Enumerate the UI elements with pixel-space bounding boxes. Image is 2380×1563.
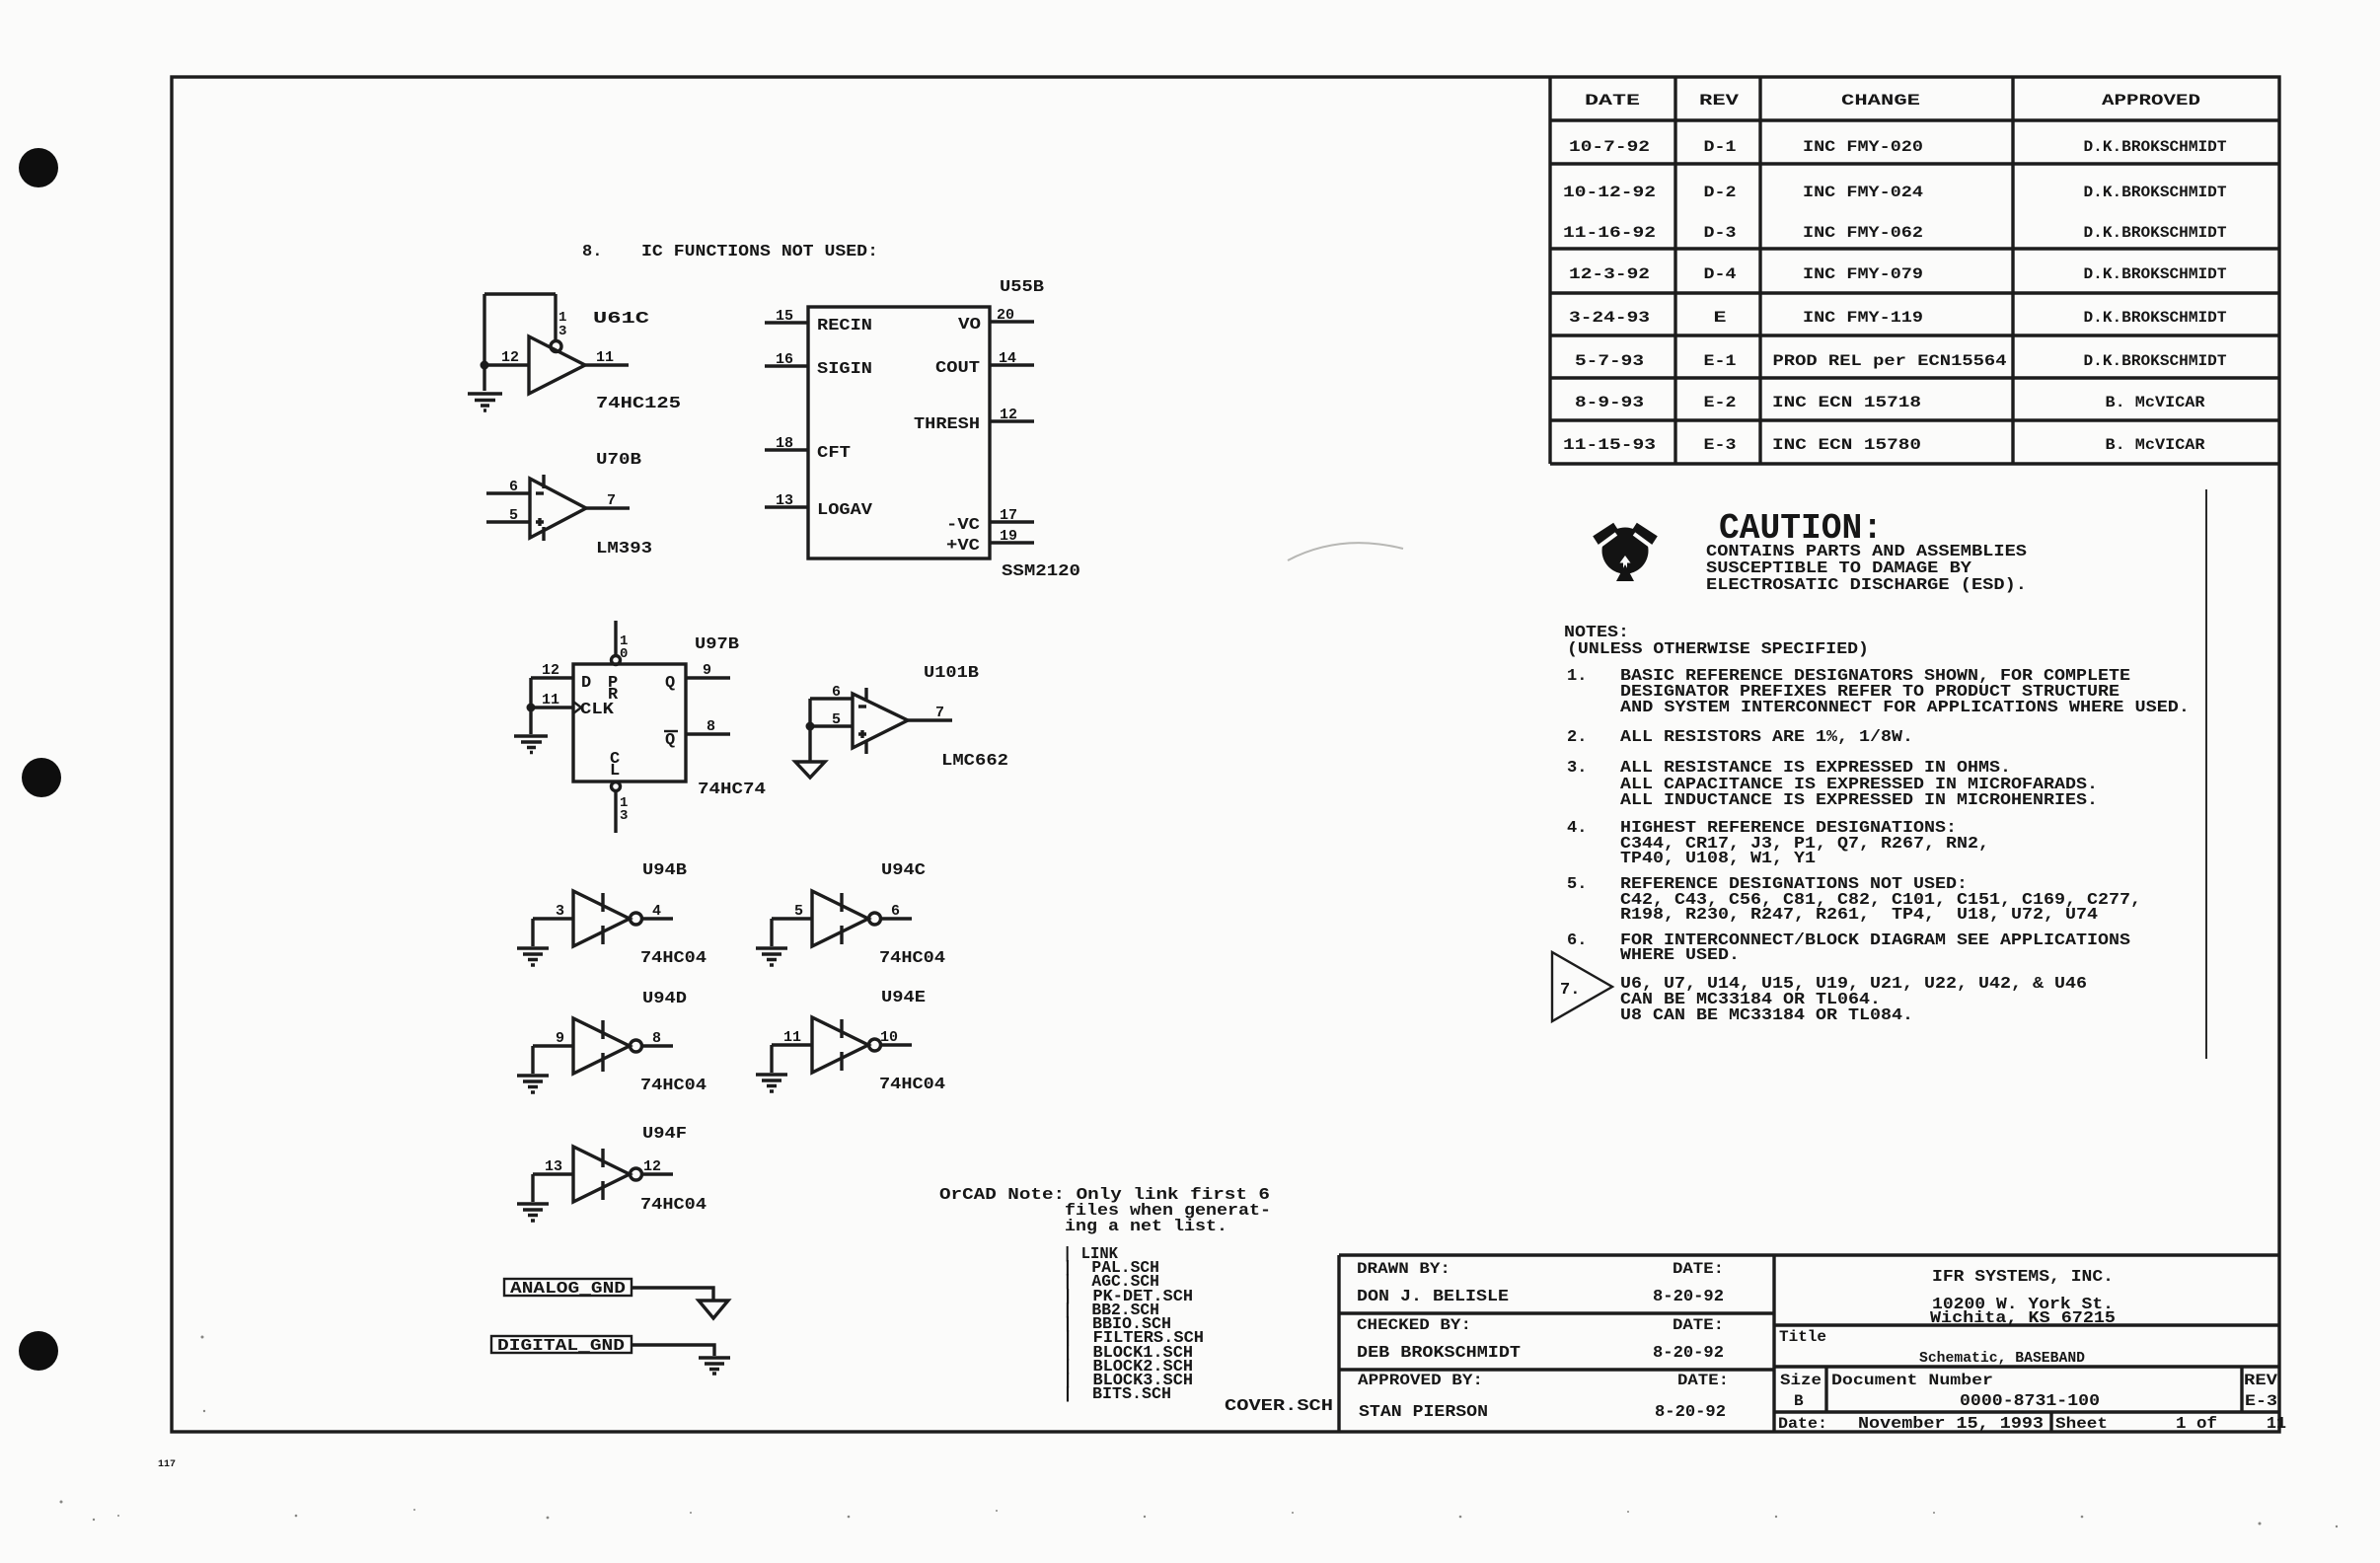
svg-text:D.K.BROKSCHMIDT: D.K.BROKSCHMIDT — [2084, 265, 2227, 283]
svg-text:INC ECN 15780: INC ECN 15780 — [1772, 436, 1921, 454]
ground drop wire — [531, 1046, 534, 1074]
svg-text:8-20-92: 8-20-92 — [1655, 1403, 1726, 1422]
svg-text:9: 9 — [556, 1030, 564, 1047]
svg-text:1.: 1. — [1567, 667, 1587, 686]
svg-text:D-3: D-3 — [1704, 224, 1737, 242]
svg-text:Title: Title — [1779, 1328, 1826, 1346]
wire pin 19 — [990, 541, 1034, 544]
svg-text:D.K.BROKSCHMIDT: D.K.BROKSCHMIDT — [2084, 352, 2227, 370]
buffer triangle U61C — [529, 336, 585, 394]
bubble — [631, 913, 642, 925]
wire pin 11 — [531, 706, 573, 708]
svg-text:D: D — [581, 674, 591, 693]
svg-text:B. McVICAR: B. McVICAR — [2106, 436, 2205, 454]
svg-text:DATE:: DATE: — [1677, 1372, 1729, 1389]
svg-text:0: 0 — [620, 646, 628, 662]
IC block U55B SSM2120 — [765, 278, 1080, 581]
svg-text:ELECTROSATIC DISCHARGE (ESD).: ELECTROSATIC DISCHARGE (ESD). — [1706, 576, 2027, 595]
svg-text:7: 7 — [607, 492, 616, 509]
note 3 — [1567, 759, 2098, 810]
revision row D-3 — [1563, 224, 2227, 242]
svg-text:INC FMY-062: INC FMY-062 — [1803, 224, 1923, 242]
svg-text:ALL INDUCTANCE IS EXPRESSED IN: ALL INDUCTANCE IS EXPRESSED IN MICROHENR… — [1620, 791, 2098, 810]
op-amp U101B — [795, 664, 1008, 778]
svg-text:LMC662: LMC662 — [941, 752, 1008, 771]
triangle — [812, 891, 868, 946]
svg-text:DIGITAL_GND: DIGITAL_GND — [497, 1337, 625, 1356]
svg-text:U61C: U61C — [593, 310, 649, 329]
svg-text:18: 18 — [776, 435, 793, 452]
svg-text:APPROVED: APPROVED — [2102, 92, 2200, 110]
power stubs — [601, 1149, 604, 1200]
svg-text:D.K.BROKSCHMIDT: D.K.BROKSCHMIDT — [2084, 138, 2227, 156]
svg-text:REV: REV — [1699, 92, 1740, 110]
svg-text:-VC: -VC — [946, 516, 980, 535]
svg-text:3: 3 — [558, 324, 566, 339]
svg-text:IFR SYSTEMS, INC.: IFR SYSTEMS, INC. — [1932, 1268, 2114, 1287]
wire pin 15 — [765, 321, 808, 324]
output wire pin 12 — [642, 1172, 674, 1175]
checked by row — [1357, 1316, 1724, 1363]
comparator U70B — [486, 451, 652, 558]
svg-text:12-3-92: 12-3-92 — [1569, 265, 1650, 283]
svg-text:8-9-93: 8-9-93 — [1575, 394, 1644, 411]
minus input mark — [858, 705, 866, 707]
svg-text:INC FMY-020: INC FMY-020 — [1803, 138, 1923, 156]
ground drop wire — [770, 919, 773, 946]
clock edge triangle — [573, 702, 581, 713]
svg-text:6: 6 — [509, 479, 518, 495]
analog ground triangle — [795, 762, 825, 778]
svg-text:17: 17 — [1000, 507, 1017, 524]
punch hole middle — [22, 758, 61, 797]
svg-text:E: E — [1714, 309, 1727, 327]
left vertical wire — [808, 699, 811, 762]
svg-text:E-2: E-2 — [1704, 394, 1737, 411]
svg-text:5: 5 — [794, 903, 803, 920]
output wire pin 6 — [881, 917, 913, 920]
wire preset top pin 10 — [614, 621, 617, 655]
svg-text:74HC04: 74HC04 — [640, 949, 707, 968]
svg-text:STAN PIERSON: STAN PIERSON — [1359, 1403, 1488, 1422]
svg-text:15: 15 — [776, 308, 793, 325]
revision row E-3 — [1563, 436, 2205, 454]
power stubs — [864, 688, 867, 754]
svg-text:3.: 3. — [1567, 759, 1587, 778]
op-amp triangle U101B — [853, 694, 908, 748]
wire pin 14 — [990, 363, 1034, 366]
svg-text:APPROVED BY:: APPROVED BY: — [1358, 1372, 1483, 1389]
svg-text:DATE:: DATE: — [1673, 1260, 1724, 1278]
svg-text:ing a net list.: ing a net list. — [1065, 1218, 1227, 1236]
inverter U94C — [756, 861, 945, 968]
revision table grid — [1550, 77, 2279, 464]
bubble pin 1/3 — [551, 341, 561, 352]
svg-text:5.: 5. — [1567, 875, 1587, 894]
svg-text:D.K.BROKSCHMIDT: D.K.BROKSCHMIDT — [2084, 184, 2227, 201]
wire pin 20 — [990, 320, 1034, 323]
svg-text:SSM2120: SSM2120 — [1002, 562, 1080, 581]
inverter U94D — [517, 990, 707, 1095]
svg-text:3: 3 — [556, 903, 564, 920]
wire pin 13 — [765, 505, 808, 508]
caution text — [1706, 543, 2027, 595]
svg-text:B: B — [1794, 1392, 1804, 1410]
svg-text:11-16-92: 11-16-92 — [1563, 224, 1656, 242]
power stubs — [601, 1020, 604, 1072]
svg-text:74HC125: 74HC125 — [596, 395, 681, 413]
svg-text:COUT: COUT — [935, 359, 980, 378]
svg-text:INC FMY-119: INC FMY-119 — [1803, 309, 1923, 327]
inverter U94B — [517, 861, 707, 968]
approved by row — [1358, 1372, 1729, 1422]
revision row E-1 — [1575, 352, 2227, 370]
node junction — [806, 722, 815, 731]
svg-text:12: 12 — [643, 1158, 661, 1175]
wire pin 6 — [486, 491, 530, 494]
svg-text:DON J. BELISLE: DON J. BELISLE — [1357, 1288, 1509, 1306]
svg-text:2.: 2. — [1567, 728, 1587, 747]
input wire pin 3 — [533, 917, 573, 920]
revision table header — [1585, 92, 2200, 110]
svg-text:11: 11 — [596, 349, 614, 366]
svg-text:7.: 7. — [1560, 981, 1580, 1000]
svg-text:13: 13 — [776, 492, 793, 509]
ground — [756, 1075, 787, 1091]
svg-text:PROD REL per ECN15564: PROD REL per ECN15564 — [1773, 352, 2007, 370]
svg-text:| BITS.SCH: | BITS.SCH — [1063, 1385, 1171, 1404]
svg-text:B. McVICAR: B. McVICAR — [2106, 394, 2205, 411]
ground — [514, 736, 548, 753]
svg-text:11: 11 — [783, 1029, 801, 1046]
revision row D-4 — [1569, 265, 2227, 283]
svg-text:U94F: U94F — [642, 1125, 687, 1144]
wire feedback top — [484, 294, 556, 391]
wire pin 16 — [765, 364, 808, 367]
svg-text:1 of: 1 of — [2176, 1415, 2217, 1434]
revision row D-2 — [1563, 184, 2227, 201]
wire — [632, 1345, 714, 1356]
scan specks — [60, 1336, 2339, 1528]
bubble — [631, 1040, 642, 1052]
svg-text:16: 16 — [776, 351, 793, 368]
input wire pin 13 — [533, 1172, 573, 1175]
bubble — [869, 913, 881, 925]
node junction — [481, 361, 489, 370]
svg-text:0000-8731-100: 0000-8731-100 — [1960, 1392, 2100, 1411]
svg-text:D-4: D-4 — [1704, 265, 1737, 283]
revision row D-1 — [1569, 138, 2227, 156]
svg-text:CHANGE: CHANGE — [1841, 92, 1920, 110]
svg-text:Q: Q — [665, 731, 675, 750]
wire — [632, 1288, 713, 1301]
svg-text:U70B: U70B — [596, 451, 641, 470]
bubble — [869, 1039, 881, 1051]
svg-text:IC FUNCTIONS NOT USED:: IC FUNCTIONS NOT USED: — [641, 243, 878, 261]
triangle — [573, 891, 630, 946]
output wire pin 4 — [642, 917, 674, 920]
svg-text:8-20-92: 8-20-92 — [1653, 1344, 1724, 1363]
input wire pin 5 — [772, 917, 812, 920]
svg-text:14: 14 — [999, 350, 1016, 367]
notes heading — [1564, 624, 1869, 659]
svg-text:THRESH: THRESH — [914, 415, 980, 434]
svg-text:U101B: U101B — [924, 664, 979, 683]
svg-text:+VC: +VC — [946, 537, 980, 556]
svg-text:U8 CAN BE MC33184 OR TL084.: U8 CAN BE MC33184 OR TL084. — [1620, 1006, 1913, 1025]
svg-text:19: 19 — [1000, 528, 1017, 545]
bubble clear — [612, 782, 621, 791]
ground — [468, 394, 502, 410]
output wire pin 8 — [642, 1044, 674, 1047]
ground — [517, 1204, 549, 1221]
svg-text:74HC74: 74HC74 — [698, 781, 766, 799]
punch hole top — [19, 148, 58, 187]
svg-text:74HC04: 74HC04 — [879, 949, 945, 968]
left vertical wire — [529, 678, 532, 734]
svg-text:Sheet: Sheet — [2055, 1415, 2108, 1433]
svg-text:LM393: LM393 — [596, 540, 652, 558]
svg-text:DATE: DATE — [1585, 92, 1640, 110]
svg-text:10: 10 — [880, 1029, 898, 1046]
input wire pin 9 — [533, 1044, 573, 1047]
svg-text:Document Number: Document Number — [1831, 1372, 1993, 1389]
svg-text:8-20-92: 8-20-92 — [1653, 1288, 1724, 1306]
revision row E — [1569, 309, 2227, 327]
inverter U94F — [517, 1125, 707, 1221]
plus input mark — [536, 518, 544, 526]
svg-text:11: 11 — [2267, 1415, 2286, 1434]
svg-text:D-1: D-1 — [1704, 138, 1737, 156]
wire pin 18 — [765, 448, 808, 451]
svg-text:12: 12 — [542, 662, 559, 679]
note 1 — [1567, 667, 2190, 717]
svg-text:D.K.BROKSCHMIDT: D.K.BROKSCHMIDT — [2084, 309, 2227, 327]
svg-text:3-24-93: 3-24-93 — [1569, 309, 1650, 327]
buffer U61C — [468, 294, 681, 413]
svg-text:REV: REV — [2244, 1372, 2277, 1389]
bubble — [631, 1168, 642, 1180]
svg-text:5-7-93: 5-7-93 — [1575, 352, 1644, 370]
svg-text:CHECKED BY:: CHECKED BY: — [1357, 1316, 1471, 1334]
svg-text:12: 12 — [501, 349, 519, 366]
svg-text:RECIN: RECIN — [817, 317, 872, 335]
net label ANALOG_GND — [504, 1279, 728, 1318]
svg-text:D.K.BROKSCHMIDT: D.K.BROKSCHMIDT — [2084, 224, 2227, 242]
body rectangle — [808, 307, 990, 558]
date row — [1778, 1415, 2286, 1434]
svg-text:Q: Q — [665, 674, 675, 693]
svg-text:4: 4 — [652, 903, 661, 920]
note 4 — [1567, 819, 1989, 868]
ground — [756, 948, 787, 965]
svg-text:TP40, U108, W1, Y1: TP40, U108, W1, Y1 — [1620, 850, 1816, 868]
svg-text:74HC04: 74HC04 — [640, 1196, 707, 1215]
svg-text:ANALOG_GND: ANALOG_GND — [510, 1280, 626, 1299]
svg-text:CFT: CFT — [817, 444, 851, 463]
triangle — [573, 1018, 630, 1074]
note 6 — [1567, 931, 2130, 965]
svg-text:11: 11 — [542, 692, 559, 708]
wire pin 7 — [586, 506, 630, 509]
svg-text:74HC04: 74HC04 — [640, 1077, 707, 1095]
wire pin 9 — [686, 676, 730, 679]
wire clear bottom pin 13 — [614, 791, 617, 833]
heading note 8 — [582, 243, 878, 261]
input wire pin 11 — [772, 1043, 812, 1046]
triangle — [812, 1017, 868, 1073]
svg-text:WHERE USED.: WHERE USED. — [1620, 946, 1740, 965]
title block grid — [1339, 1255, 2279, 1432]
output wire pin 10 — [881, 1043, 913, 1046]
svg-text:12: 12 — [1000, 407, 1017, 423]
svg-text:8.: 8. — [582, 243, 602, 261]
svg-text:E-1: E-1 — [1704, 352, 1737, 370]
svg-text:74HC04: 74HC04 — [879, 1076, 945, 1094]
stray pen arc — [1288, 543, 1403, 560]
svg-text:Wichita, KS 67215: Wichita, KS 67215 — [1930, 1309, 2116, 1328]
wire pin 12 — [484, 363, 529, 366]
svg-text:U97B: U97B — [695, 635, 739, 654]
note 2 — [1567, 728, 1913, 747]
svg-text:SIGIN: SIGIN — [817, 360, 872, 379]
svg-text:DRAWN BY:: DRAWN BY: — [1357, 1260, 1450, 1278]
ground drop wire — [770, 1045, 773, 1073]
op-amp triangle U70B — [530, 479, 586, 538]
flip-flop U97B — [514, 621, 766, 833]
inverter U94E — [756, 989, 945, 1094]
svg-text:6: 6 — [832, 684, 841, 701]
svg-text:COVER.SCH: COVER.SCH — [1225, 1397, 1333, 1416]
wire pin 6 — [810, 697, 853, 700]
svg-text:DEB BROKSCHMIDT: DEB BROKSCHMIDT — [1357, 1344, 1521, 1363]
body rectangle — [573, 664, 686, 781]
fold crease line — [2205, 489, 2207, 1059]
ground drop wire — [531, 1174, 534, 1202]
drawn by row — [1357, 1260, 1724, 1306]
link file list — [1063, 1245, 1204, 1404]
svg-text:11-15-93: 11-15-93 — [1563, 436, 1656, 454]
wire pin 12 — [531, 676, 573, 679]
wire pin 11 — [585, 363, 629, 366]
svg-text:E-3: E-3 — [2245, 1392, 2277, 1410]
svg-text:L: L — [610, 762, 620, 781]
svg-text:INC ECN 15718: INC ECN 15718 — [1772, 394, 1921, 411]
ground — [699, 1358, 730, 1374]
svg-text:U94D: U94D — [642, 990, 687, 1008]
analog ground triangle — [699, 1301, 728, 1318]
wire pin 12 — [990, 419, 1034, 422]
svg-text:E-3: E-3 — [1704, 436, 1737, 454]
ground drop wire — [531, 919, 534, 946]
minus input mark — [536, 491, 544, 494]
node junction — [527, 704, 536, 712]
note 5 — [1567, 875, 2141, 925]
svg-text:U94B: U94B — [642, 861, 687, 880]
svg-text:LOGAV: LOGAV — [817, 501, 873, 520]
svg-text:CLK: CLK — [580, 701, 615, 719]
triangle — [573, 1147, 630, 1202]
svg-text:INC FMY-024: INC FMY-024 — [1803, 184, 1923, 201]
ESD caution symbol — [1593, 523, 1658, 581]
svg-text:DATE:: DATE: — [1673, 1316, 1724, 1334]
power stubs — [601, 893, 604, 944]
svg-text:AND SYSTEM INTERCONNECT FOR AP: AND SYSTEM INTERCONNECT FOR APPLICATIONS… — [1620, 699, 2190, 717]
wire pin 17 — [990, 520, 1034, 523]
svg-text:INC FMY-079: INC FMY-079 — [1803, 265, 1923, 283]
svg-text:5: 5 — [509, 507, 518, 524]
svg-text:U94E: U94E — [881, 989, 926, 1007]
svg-text:Date:: Date: — [1778, 1415, 1827, 1433]
svg-text:3: 3 — [620, 808, 628, 824]
svg-text:U55B: U55B — [1000, 278, 1044, 297]
ground — [517, 1076, 549, 1092]
svg-text:6: 6 — [891, 903, 900, 920]
svg-text:U94C: U94C — [881, 861, 926, 880]
punch hole bottom — [19, 1331, 58, 1371]
power stubs — [840, 893, 843, 944]
wire pin 8 — [686, 732, 730, 735]
svg-text:13: 13 — [545, 1158, 562, 1175]
border frame — [172, 77, 2279, 1432]
wire pin 7 — [908, 718, 952, 721]
svg-text:4.: 4. — [1567, 819, 1587, 838]
note 7 — [1560, 975, 2087, 1025]
power stubs — [840, 1019, 843, 1071]
power stubs — [542, 475, 545, 541]
wire pin 5 — [486, 520, 530, 523]
svg-text:November 15, 1993: November 15, 1993 — [1858, 1415, 2044, 1434]
svg-text:10-7-92: 10-7-92 — [1569, 138, 1650, 156]
svg-text:20: 20 — [997, 307, 1014, 324]
bubble preset — [612, 656, 621, 665]
svg-text:6.: 6. — [1567, 931, 1587, 950]
company name block — [1930, 1268, 2116, 1328]
svg-text:VO: VO — [958, 316, 981, 335]
svg-text:Schematic, BASEBAND: Schematic, BASEBAND — [1919, 1350, 2085, 1367]
svg-text:R198, R230, R247, R261, TP4,: R198, R230, R247, R261, TP4, U18, U72, U… — [1620, 906, 2098, 925]
svg-text:10-12-92: 10-12-92 — [1563, 184, 1656, 201]
ground — [517, 948, 549, 965]
svg-text:7: 7 — [935, 705, 944, 721]
svg-text:ALL RESISTORS ARE 1%, 1/8W.: ALL RESISTORS ARE 1%, 1/8W. — [1620, 728, 1913, 747]
svg-text:5: 5 — [832, 711, 841, 728]
OrCAD note — [939, 1186, 1271, 1236]
svg-text:117: 117 — [158, 1459, 176, 1470]
svg-text:D-2: D-2 — [1704, 184, 1737, 201]
note 7 flag triangle — [1552, 952, 1612, 1021]
svg-text:Size: Size — [1780, 1372, 1822, 1389]
svg-text:8: 8 — [652, 1030, 661, 1047]
revision row E-2 — [1575, 394, 2205, 411]
svg-text:(UNLESS OTHERWISE SPECIFIED): (UNLESS OTHERWISE SPECIFIED) — [1567, 640, 1869, 659]
plus input mark — [858, 730, 866, 738]
net label DIGITAL_GND — [491, 1336, 730, 1374]
wire pin 5 — [810, 724, 853, 727]
